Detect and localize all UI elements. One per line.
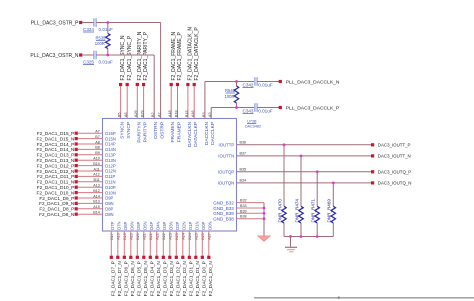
- svg-text:PARITYN: PARITYN: [136, 121, 142, 142]
- svg-text:B38: B38: [240, 215, 247, 219]
- pin D5P / net F2_DAC1_D5_P (bottom pin B20): [136, 221, 142, 296]
- svg-text:IOUTTP: IOUTTP: [219, 142, 235, 147]
- svg-text:F2_DAC1_DATACLK_P: F2_DAC1_DATACLK_P: [194, 27, 200, 81]
- svg-text:F2_DAC1_D11_P: F2_DAC1_D11_P: [37, 174, 74, 179]
- pin D1N / net F2_DAC1_D1_N (bottom pin A25): [194, 221, 200, 296]
- wire cap C343 to net square: [257, 107, 279, 109]
- pin SYNCP (top pin A5): [124, 35, 133, 139]
- svg-text:F2_DAC1_D5_N: F2_DAC1_D5_N: [143, 261, 148, 296]
- pin PARITYN (top pin A29): [134, 31, 143, 142]
- svg-text:B12: B12: [93, 189, 100, 193]
- svg-text:F2_DAC1_SYNC_P: F2_DAC1_SYNC_P: [127, 35, 133, 80]
- svg-text:DACCLKN: DACCLKN: [204, 121, 210, 145]
- svg-text:B8: B8: [95, 146, 100, 150]
- svg-text:D12P: D12P: [105, 163, 116, 168]
- wire OSTR_N to cap: [82, 54, 94, 56]
- svg-text:F2_DAC1_PARITY_P: F2_DAC1_PARITY_P: [143, 31, 149, 80]
- svg-text:OSTRN: OSTRN: [153, 121, 159, 139]
- capacitor C324 0.01uF: [83, 18, 113, 32]
- svg-text:D11N: D11N: [105, 180, 115, 185]
- pin D14P / net F2_DAC1_D14_P (left pin A8): [37, 140, 116, 147]
- pin D8P / net F2_DAC1_D8_P (left pin A15): [39, 205, 113, 212]
- pin GND_B38 (right pin B38): [213, 215, 264, 222]
- svg-text:D6N: D6N: [130, 221, 135, 229]
- resistor R545 100R: [224, 82, 238, 108]
- svg-text:F2_DAC1_SYNC_N: F2_DAC1_SYNC_N: [120, 35, 126, 80]
- svg-text:A15: A15: [93, 205, 100, 209]
- svg-text:A18: A18: [168, 110, 172, 117]
- svg-text:B15: B15: [185, 110, 189, 117]
- svg-text:D7N: D7N: [117, 221, 122, 229]
- svg-text:C343: C343: [243, 109, 254, 114]
- pin DACCLKP (top pin A3): [208, 112, 216, 144]
- svg-text:DACCLKP: DACCLKP: [210, 122, 216, 145]
- svg-text:DAC3_IOUTT_P: DAC3_IOUTT_P: [378, 143, 411, 148]
- svg-text:PLL_DAC3_DACCLK_N: PLL_DAC3_DACCLK_N: [286, 80, 340, 86]
- svg-text:D10P: D10P: [105, 185, 116, 190]
- svg-text:DNR_R469: DNR_R469: [327, 199, 332, 223]
- svg-text:GND_B32: GND_B32: [213, 200, 234, 205]
- resistor R469 (DNR_R469): [327, 182, 336, 237]
- svg-text:F2_DAC1_D7_N: F2_DAC1_D7_N: [117, 261, 122, 296]
- svg-text:F2_DAC1_D3_N: F2_DAC1_D3_N: [169, 261, 174, 296]
- pin D10P / net F2_DAC1_D10_P (left pin A13): [37, 184, 116, 191]
- svg-text:D7P: D7P: [110, 221, 115, 229]
- svg-text:DAC3_IOUTT_N: DAC3_IOUTT_N: [378, 154, 411, 159]
- wire cap C342 to net square: [257, 81, 279, 83]
- svg-text:FRAMEP: FRAMEP: [177, 122, 183, 142]
- svg-text:F2_DAC1_D8_P: F2_DAC1_D8_P: [39, 207, 74, 212]
- pin D9P / net F2_DAC1_D9_P (left pin A14): [39, 194, 113, 201]
- svg-text:DATACLKP: DATACLKP: [193, 122, 199, 147]
- svg-text:DNR_R471: DNR_R471: [311, 199, 316, 223]
- pin GND_B32 (right pin B32): [213, 199, 264, 206]
- pin PARITYP (top pin B29): [141, 31, 150, 142]
- svg-text:DAC3_IOUTQ_P: DAC3_IOUTQ_P: [378, 170, 411, 175]
- svg-text:F2_DAC1_D2_P: F2_DAC1_D2_P: [176, 261, 181, 296]
- pin D15P / net F2_DAC1_D15_P (left pin A7): [37, 130, 116, 137]
- pin IOUTTP (right pin B36) / net DAC3_IOUTT_P wire: [219, 141, 411, 148]
- svg-text:F2_DAC1_D10_P: F2_DAC1_D10_P: [37, 185, 75, 190]
- svg-text:B10: B10: [93, 162, 100, 166]
- svg-text:A23: A23: [169, 233, 173, 240]
- svg-text:B7: B7: [95, 135, 100, 139]
- svg-text:F2_DAC1_D4_N: F2_DAC1_D4_N: [156, 261, 161, 296]
- svg-text:F2_DAC1_DATACLK_N: F2_DAC1_DATACLK_N: [188, 27, 194, 81]
- svg-text:0.01uF: 0.01uF: [99, 27, 113, 32]
- svg-text:B22: B22: [162, 233, 166, 240]
- svg-text:A24: A24: [182, 233, 186, 240]
- svg-text:B11: B11: [94, 178, 100, 182]
- svg-text:B5: B5: [118, 112, 122, 117]
- pin IOUTQP (right pin B35) / net DAC3_IOUTQ_P wire: [218, 168, 411, 175]
- svg-text:DAC3482: DAC3482: [245, 125, 261, 129]
- svg-text:FRAMEN: FRAMEN: [170, 121, 176, 142]
- svg-text:U73B: U73B: [247, 120, 257, 124]
- svg-text:B21: B21: [149, 233, 153, 240]
- svg-text:B34: B34: [240, 179, 247, 183]
- pin D8N / net F2_DAC1_D8_N (left pin B14): [39, 211, 113, 218]
- pin D11P / net F2_DAC1_D11_P (left pin A12): [37, 173, 115, 180]
- svg-text:A16: A16: [191, 110, 195, 117]
- svg-text:B36: B36: [240, 141, 247, 145]
- svg-text:F2_DAC1_D9_N: F2_DAC1_D9_N: [39, 201, 74, 206]
- svg-text:A12: A12: [93, 173, 100, 177]
- svg-text:D9P: D9P: [105, 196, 113, 201]
- net label PLL_DAC3_OSTR_N: [30, 53, 82, 59]
- U73B reference designator label: [245, 120, 261, 129]
- svg-text:A22: A22: [156, 233, 160, 240]
- pin D13N / net F2_DAC1_D13_N (left pin A10): [37, 157, 116, 164]
- resistor R470 (DNR_R470): [277, 143, 286, 236]
- pin FRAMEP (top pin B18): [174, 31, 183, 142]
- pin OSTRN (top pin B2): [151, 112, 159, 138]
- pin D1P / net F2_DAC1_D1_P (bottom pin B24): [188, 221, 194, 296]
- wire OSTR_N cap to OSTRN pin: [96, 54, 154, 119]
- svg-text:F2_DAC1_D12_P: F2_DAC1_D12_P: [37, 163, 75, 168]
- svg-text:D9N: D9N: [105, 201, 113, 206]
- svg-text:IOUTQP: IOUTQP: [218, 169, 235, 174]
- svg-text:F2_DAC1_D6_P: F2_DAC1_D6_P: [124, 261, 129, 296]
- svg-text:A11: A11: [94, 167, 100, 171]
- svg-text:F2_DAC1_D1_N: F2_DAC1_D1_N: [195, 261, 200, 296]
- svg-text:D1P: D1P: [188, 221, 193, 229]
- svg-text:F2_DAC1_D12_N: F2_DAC1_D12_N: [37, 169, 75, 174]
- net label PLL_DAC3_DACCLK_N: [279, 80, 340, 86]
- svg-text:100R: 100R: [95, 41, 105, 46]
- wire OSTR_P to cap: [82, 22, 94, 24]
- capacitor C343 0.01uF: [243, 103, 273, 113]
- wire DACCLKN to cap C342: [205, 80, 254, 118]
- svg-text:B37: B37: [240, 152, 247, 156]
- ground (solid triangle): [258, 236, 271, 242]
- svg-text:D1N: D1N: [195, 221, 200, 229]
- svg-text:100R: 100R: [224, 94, 234, 99]
- pin D0P / net F2_DAC1_D0_P (bottom pin B25): [201, 221, 207, 296]
- svg-text:GND_B38: GND_B38: [213, 217, 234, 222]
- pin D5N / net F2_DAC1_D5_N (bottom pin A21): [142, 221, 148, 296]
- capacitor C325 0.01uF: [83, 51, 113, 65]
- pin D4P / net F2_DAC1_D4_P (bottom pin B21): [149, 221, 155, 296]
- pin D6P / net F2_DAC1_D6_P (bottom pin B19): [123, 221, 129, 296]
- svg-text:F2_DAC1_FRAME_N: F2_DAC1_FRAME_N: [171, 31, 177, 80]
- svg-text:C324: C324: [83, 27, 94, 32]
- svg-text:A7: A7: [95, 130, 100, 134]
- resistor R474 (DNR_R474): [294, 155, 303, 237]
- svg-text:B24: B24: [188, 233, 192, 240]
- svg-text:B13: B13: [93, 200, 100, 204]
- pin D2P / net F2_DAC1_D2_P (bottom pin B23): [175, 221, 181, 296]
- svg-text:B18: B18: [174, 110, 178, 117]
- svg-text:F2_DAC1_D13_P: F2_DAC1_D13_P: [37, 153, 75, 158]
- svg-text:D4P: D4P: [149, 221, 154, 229]
- svg-text:DATACLKN: DATACLKN: [187, 121, 193, 147]
- net label PLL_DAC3_OSTR_P: [31, 21, 83, 27]
- gnd collector wire: [263, 203, 266, 236]
- pin D11N / net F2_DAC1_D11_N (left pin B11): [37, 178, 116, 185]
- ground rail under resistors: [284, 235, 333, 238]
- svg-text:A27: A27: [208, 233, 212, 240]
- svg-text:D15N: D15N: [105, 136, 116, 141]
- pin GND_B33 (right pin B33): [213, 204, 264, 211]
- svg-text:F2_DAC1_D0_P: F2_DAC1_D0_P: [202, 261, 207, 296]
- svg-text:F2_DAC1_D14_P: F2_DAC1_D14_P: [37, 142, 75, 147]
- pin DACCLKN (top pin B3): [202, 112, 210, 145]
- pin IOUTTN (right pin B37) / net DAC3_IOUTT_N wire: [218, 152, 410, 159]
- svg-text:D4N: D4N: [156, 221, 161, 229]
- svg-text:F2_DAC1_PARITY_N: F2_DAC1_PARITY_N: [137, 31, 143, 80]
- pin FRAMEN (top pin A18): [168, 31, 177, 142]
- svg-text:0.01uF: 0.01uF: [258, 83, 272, 88]
- svg-text:B29: B29: [141, 110, 145, 117]
- svg-text:A14: A14: [93, 194, 100, 198]
- svg-text:A5: A5: [124, 112, 128, 117]
- svg-text:A29: A29: [134, 110, 138, 117]
- capacitor C342 0.01uF: [243, 77, 273, 87]
- wire OSTR_P cap to OSTRP pin: [96, 21, 160, 118]
- svg-text:D11P: D11P: [105, 174, 115, 179]
- pin D2N / net F2_DAC1_D2_N (bottom pin A24): [181, 221, 187, 296]
- svg-text:F2_DAC1_D10_N: F2_DAC1_D10_N: [37, 190, 75, 195]
- svg-text:D12N: D12N: [105, 169, 116, 174]
- svg-text:F2_DAC1_D4_P: F2_DAC1_D4_P: [150, 261, 155, 296]
- svg-text:F2_DAC1_D7_P: F2_DAC1_D7_P: [111, 261, 116, 296]
- svg-text:D2P: D2P: [175, 221, 180, 229]
- svg-text:D5P: D5P: [136, 221, 141, 229]
- svg-text:A21: A21: [143, 233, 147, 240]
- svg-text:B14: B14: [93, 211, 100, 215]
- svg-text:F2_DAC1_D13_N: F2_DAC1_D13_N: [37, 158, 75, 163]
- svg-text:OSTRP: OSTRP: [160, 122, 166, 139]
- svg-text:A19: A19: [117, 233, 121, 240]
- pin D15N / net F2_DAC1_D15_N (left pin B7): [37, 135, 116, 142]
- svg-text:A10: A10: [93, 157, 100, 161]
- svg-text:F2_DAC1_D1_P: F2_DAC1_D1_P: [189, 261, 194, 296]
- svg-text:A8: A8: [95, 140, 100, 144]
- svg-text:F2_DAC1_D2_N: F2_DAC1_D2_N: [182, 261, 187, 296]
- svg-text:PARITYP: PARITYP: [143, 122, 149, 143]
- svg-text:D5N: D5N: [143, 221, 148, 229]
- pin GND_B39 (right pin B39): [213, 209, 264, 216]
- svg-text:D8P: D8P: [105, 207, 113, 212]
- svg-text:D3P: D3P: [162, 221, 167, 229]
- wire DACCLKP to cap C343: [211, 106, 254, 118]
- svg-text:0.01uF: 0.01uF: [258, 109, 272, 114]
- svg-text:B33: B33: [240, 204, 247, 208]
- svg-text:F2_DAC1_D6_N: F2_DAC1_D6_N: [130, 261, 135, 296]
- svg-text:F2_DAC1_D9_P: F2_DAC1_D9_P: [39, 196, 74, 201]
- pin D14N / net F2_DAC1_D14_N (left pin B8): [37, 146, 116, 153]
- svg-text:PLL_DAC3_DACCLK_P: PLL_DAC3_DACCLK_P: [286, 106, 340, 112]
- svg-text:F2_DAC1_D0_N: F2_DAC1_D0_N: [208, 261, 213, 296]
- pin D13P / net F2_DAC1_D13_P (left pin B9): [37, 151, 116, 158]
- svg-text:F2_DAC1_D11_N: F2_DAC1_D11_N: [37, 180, 74, 185]
- svg-text:SYNCP: SYNCP: [126, 122, 132, 139]
- svg-text:D13P: D13P: [105, 153, 116, 158]
- svg-text:DAC3_IOUTQ_N: DAC3_IOUTQ_N: [378, 181, 412, 186]
- pin D7P / net F2_DAC1_D7_P (bottom pin B17): [110, 221, 116, 296]
- pin DATACLKP (top pin A16): [191, 27, 200, 147]
- svg-text:D6P: D6P: [123, 221, 128, 229]
- svg-text:D0N: D0N: [208, 221, 213, 229]
- svg-text:D3N: D3N: [169, 221, 174, 229]
- svg-text:F2_DAC1_FRAME_P: F2_DAC1_FRAME_P: [177, 31, 183, 80]
- svg-text:C325: C325: [83, 60, 94, 65]
- pin D4N / net F2_DAC1_D4_N (bottom pin A22): [155, 221, 161, 296]
- svg-text:D14N: D14N: [105, 147, 116, 152]
- svg-text:B20: B20: [136, 233, 140, 240]
- svg-text:A20: A20: [130, 233, 134, 240]
- pin SYNCN (top pin B5): [118, 35, 127, 139]
- svg-text:B23: B23: [175, 233, 179, 240]
- svg-text:SYNCN: SYNCN: [120, 121, 126, 139]
- resistor R535 100R: [95, 23, 110, 56]
- svg-text:D8N: D8N: [105, 212, 113, 217]
- svg-text:B17: B17: [110, 233, 114, 240]
- svg-text:D13N: D13N: [105, 158, 116, 163]
- IC U73B DAC3482 chip body: [103, 119, 237, 232]
- svg-text:DNR_R470: DNR_R470: [277, 199, 282, 223]
- svg-text:D10N: D10N: [105, 190, 116, 195]
- pin D6N / net F2_DAC1_D6_N (bottom pin A20): [129, 221, 135, 296]
- svg-text:B39: B39: [240, 209, 247, 213]
- pin D12N / net F2_DAC1_D12_N (left pin A11): [37, 167, 116, 174]
- svg-text:DNR_R474: DNR_R474: [294, 199, 299, 223]
- svg-text:B19: B19: [123, 233, 127, 240]
- svg-text:B25: B25: [201, 233, 205, 240]
- svg-text:A25: A25: [195, 233, 199, 240]
- svg-text:D2N: D2N: [182, 221, 187, 229]
- pin D3P / net F2_DAC1_D3_P (bottom pin B22): [162, 221, 168, 296]
- svg-text:PLL_DAC3_OSTR_P: PLL_DAC3_OSTR_P: [31, 21, 79, 27]
- svg-text:F2_DAC1_D3_P: F2_DAC1_D3_P: [163, 261, 168, 296]
- svg-text:F2_DAC1_D15_N: F2_DAC1_D15_N: [37, 136, 75, 141]
- svg-text:F2_DAC1_D5_P: F2_DAC1_D5_P: [137, 261, 142, 296]
- svg-text:GND_B33: GND_B33: [213, 206, 234, 211]
- svg-text:R545: R545: [225, 88, 236, 93]
- svg-text:B35: B35: [240, 168, 247, 172]
- ground (striped): [285, 237, 297, 252]
- pin OSTRP (top pin A2): [158, 112, 166, 138]
- net label PLL_DAC3_DACCLK_P: [279, 106, 340, 112]
- svg-text:F2_DAC1_D14_N: F2_DAC1_D14_N: [37, 147, 75, 152]
- sheet border line bottom right: [254, 297, 474, 299]
- svg-text:D14P: D14P: [105, 142, 116, 147]
- svg-text:0.01uF: 0.01uF: [99, 60, 113, 65]
- resistor R471 (DNR_R471): [311, 170, 320, 236]
- svg-text:IOUTTN: IOUTTN: [218, 154, 234, 159]
- pin D10N / net F2_DAC1_D10_N (left pin B12): [37, 189, 116, 196]
- pin D0N / net F2_DAC1_D0_N (bottom pin A27): [207, 221, 213, 296]
- svg-text:F2_DAC1_D15_P: F2_DAC1_D15_P: [37, 131, 75, 136]
- svg-text:F2_DAC1_D8_N: F2_DAC1_D8_N: [39, 212, 74, 217]
- pin D7N / net F2_DAC1_D7_N (bottom pin A19): [116, 221, 122, 296]
- svg-text:IOUTQN: IOUTQN: [218, 181, 235, 186]
- pin D3N / net F2_DAC1_D3_N (bottom pin A23): [168, 221, 174, 296]
- pin DATACLKN (top pin B15): [185, 27, 194, 148]
- svg-text:GND_B39: GND_B39: [213, 211, 234, 216]
- svg-text:D0P: D0P: [201, 221, 206, 229]
- pin D9N / net F2_DAC1_D9_N (left pin B13): [39, 200, 113, 207]
- svg-text:C342: C342: [243, 83, 254, 88]
- pin D12P / net F2_DAC1_D12_P (left pin B10): [37, 162, 116, 169]
- svg-text:D15P: D15P: [105, 131, 116, 136]
- pin IOUTQN (right pin B34) / net DAC3_IOUTQ_N wire: [218, 179, 412, 186]
- svg-text:B9: B9: [95, 151, 100, 155]
- svg-text:R535: R535: [95, 35, 106, 40]
- svg-text:PLL_DAC3_OSTR_N: PLL_DAC3_OSTR_N: [30, 53, 78, 59]
- svg-text:B32: B32: [240, 199, 247, 203]
- svg-text:A13: A13: [93, 184, 100, 188]
